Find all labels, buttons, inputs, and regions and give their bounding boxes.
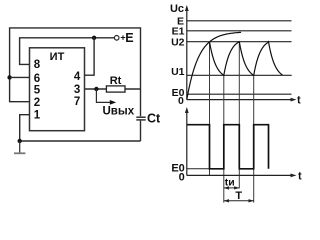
guide line t3 (second peak)	[238, 42, 240, 189]
dimension tи arrows	[224, 177, 240, 190]
wire pin 8 to +E rail	[20, 38, 115, 65]
axis Y lower with arrow	[185, 107, 189, 175]
svg-text:E: E	[125, 31, 133, 45]
svg-text:Uc: Uc	[170, 3, 184, 15]
svg-text:1: 1	[34, 109, 41, 121]
svg-text:t: t	[297, 95, 301, 107]
wire bottom rail	[20, 140, 141, 142]
grid line U1	[187, 74, 292, 76]
capacitor Ct	[136, 111, 161, 125]
svg-text:8: 8	[34, 59, 41, 71]
ground	[14, 141, 25, 153]
svg-text:U1: U1	[171, 66, 185, 78]
svg-text:0: 0	[179, 171, 185, 183]
svg-text:4: 4	[74, 71, 81, 83]
svg-text:ИТ: ИТ	[50, 51, 65, 63]
wire pin 6	[10, 76, 30, 78]
grid line E	[187, 20, 292, 22]
svg-text:Uвых: Uвых	[103, 105, 135, 117]
axis X upper with arrow, label t	[187, 95, 301, 107]
curve envelope charge toward E1	[187, 32, 241, 99]
wire pin 3 to right edge	[85, 88, 141, 90]
grid line U2	[187, 41, 292, 43]
guide line t4 (second valley)	[253, 75, 255, 202]
terminal +E circle	[114, 36, 119, 41]
wire pin 1	[20, 115, 30, 141]
svg-text:3: 3	[74, 84, 80, 96]
timer IC U1 (ИТ)	[30, 48, 85, 131]
pulse waveform Uвых	[187, 125, 269, 169]
node B (+E rail / pin 4)	[92, 36, 96, 40]
svg-text:Rt: Rt	[110, 75, 122, 87]
output arrow Uвых	[96, 89, 134, 117]
wire pin 4	[85, 38, 95, 75]
svg-text:0: 0	[178, 95, 184, 107]
node A (pins 2,6 to Ct)	[7, 75, 11, 79]
grid line E0 upper	[187, 93, 292, 95]
svg-text:7: 7	[74, 96, 80, 108]
svg-text:tи: tи	[225, 177, 235, 189]
svg-text:U2: U2	[171, 37, 185, 49]
axis Y upper with arrow, label Uc	[170, 3, 189, 100]
wire outer frame: pin2 to top to right edge	[10, 28, 141, 116]
grid line E0 lower	[187, 168, 224, 170]
svg-text:2: 2	[34, 97, 40, 109]
node D (ground rail)	[18, 139, 22, 143]
guide line t2 (first valley)	[223, 75, 225, 202]
guide line t1 (first peak)	[209, 42, 211, 176]
grid line E1	[187, 30, 292, 32]
wire right edge below Ct	[140, 121, 142, 141]
resistor Rt	[106, 75, 125, 92]
svg-text:6: 6	[34, 73, 40, 85]
svg-text:Ct: Ct	[147, 111, 161, 125]
svg-text:5: 5	[34, 85, 41, 97]
axis X lower with arrow, label t	[187, 170, 302, 182]
svg-text:t: t	[298, 170, 302, 182]
dimension T arrows	[224, 190, 254, 203]
curve Uc sawtooth	[210, 42, 283, 76]
svg-text:T: T	[235, 190, 242, 202]
node C (pin 3 output)	[94, 87, 98, 91]
